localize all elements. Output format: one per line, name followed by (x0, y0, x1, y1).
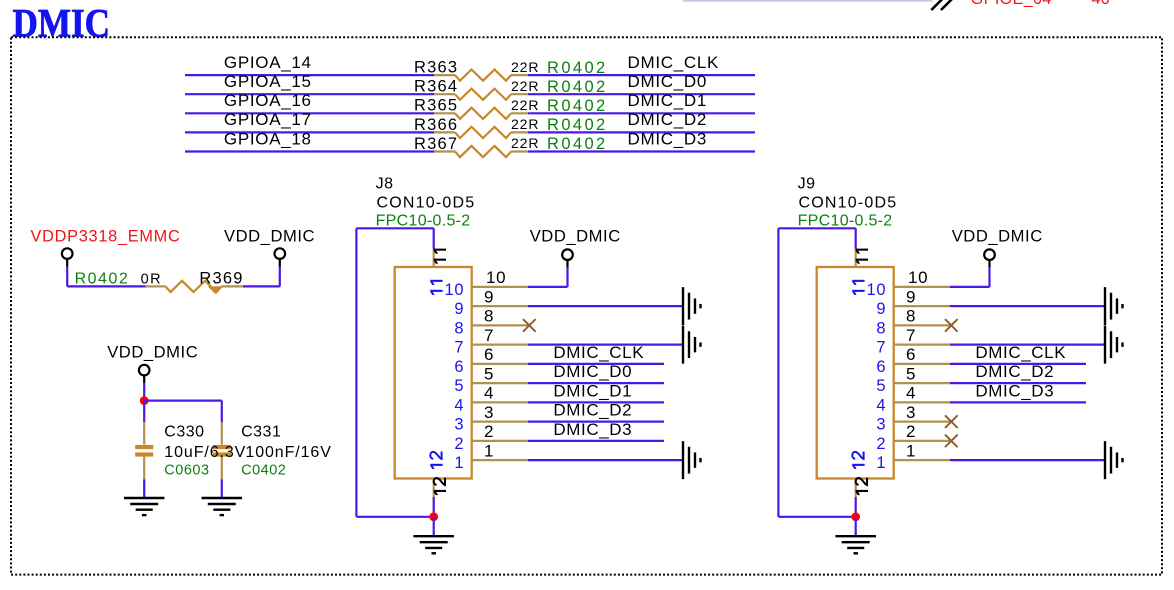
svg-text:DMIC_D0: DMIC_D0 (628, 72, 708, 91)
svg-text:DMIC_D3: DMIC_D3 (975, 381, 1054, 400)
svg-text:DMIC_D3: DMIC_D3 (628, 129, 708, 148)
svg-text:4: 4 (454, 396, 464, 414)
svg-text:3: 3 (454, 416, 464, 434)
svg-text:VDD_DMIC: VDD_DMIC (530, 227, 621, 246)
svg-text:FPC10-0.5-2: FPC10-0.5-2 (376, 212, 471, 229)
svg-text:DMIC: DMIC (13, 0, 111, 45)
svg-text:6: 6 (484, 345, 494, 364)
svg-text:1: 1 (454, 454, 464, 472)
svg-text:R364: R364 (414, 78, 458, 96)
svg-text:10uF/6.3V: 10uF/6.3V (164, 444, 246, 461)
svg-text:40: 40 (1092, 0, 1111, 8)
svg-text:1: 1 (876, 454, 886, 472)
svg-text:5: 5 (454, 377, 464, 395)
svg-text:7: 7 (876, 339, 886, 357)
svg-text:9: 9 (906, 287, 916, 306)
svg-text:DMIC_D2: DMIC_D2 (628, 110, 708, 129)
svg-text:4: 4 (484, 384, 494, 403)
svg-text:C331: C331 (241, 424, 281, 441)
svg-text:8: 8 (876, 319, 886, 337)
svg-text:R0402: R0402 (75, 270, 130, 287)
svg-text:R0402: R0402 (547, 59, 608, 77)
svg-text:R369: R369 (199, 270, 243, 288)
svg-text:DMIC_CLK: DMIC_CLK (975, 343, 1066, 362)
svg-text:1: 1 (906, 441, 916, 460)
svg-text:7: 7 (484, 326, 494, 345)
svg-text:4: 4 (906, 384, 916, 403)
svg-text:DMIC_D1: DMIC_D1 (553, 381, 632, 400)
svg-text:DMIC_D2: DMIC_D2 (553, 401, 632, 420)
svg-text:CON10-0D5: CON10-0D5 (377, 194, 476, 211)
svg-text:10: 10 (445, 281, 465, 299)
svg-text:DMIC_D3: DMIC_D3 (553, 420, 632, 439)
svg-text:R365: R365 (414, 97, 458, 115)
svg-text:VDD_DMIC: VDD_DMIC (952, 227, 1043, 246)
svg-text:GPIOA_15: GPIOA_15 (224, 72, 312, 91)
svg-text:R0402: R0402 (547, 116, 608, 134)
svg-text:3: 3 (484, 403, 494, 422)
svg-text:C0402: C0402 (241, 463, 286, 479)
svg-text:GPIOE_04: GPIOE_04 (971, 0, 1052, 8)
svg-text:DMIC_D1: DMIC_D1 (628, 91, 708, 110)
svg-text:7: 7 (906, 326, 916, 345)
svg-text:5: 5 (906, 364, 916, 383)
svg-text:22R: 22R (511, 59, 539, 75)
svg-text:7: 7 (454, 339, 464, 357)
svg-text:22R: 22R (511, 135, 539, 151)
svg-text:3: 3 (906, 403, 916, 422)
svg-text:GPIOA_18: GPIOA_18 (224, 129, 312, 148)
svg-text:9: 9 (876, 300, 886, 318)
svg-text:10: 10 (908, 268, 928, 287)
svg-text:10: 10 (486, 268, 506, 287)
svg-text:DMIC_D0: DMIC_D0 (553, 362, 632, 381)
svg-text:GPIOA_17: GPIOA_17 (224, 110, 312, 129)
svg-text:VDD_DMIC: VDD_DMIC (224, 226, 315, 245)
svg-text:R0402: R0402 (547, 135, 608, 153)
svg-text:8: 8 (454, 319, 464, 337)
svg-text:9: 9 (484, 287, 494, 306)
svg-text:22R: 22R (511, 78, 539, 94)
svg-text:9: 9 (454, 300, 464, 318)
svg-text:GPIOA_16: GPIOA_16 (224, 91, 312, 110)
svg-text:DMIC_D2: DMIC_D2 (975, 362, 1054, 381)
svg-text:FPC10-0.5-2: FPC10-0.5-2 (798, 212, 893, 229)
svg-text:DMIC_CLK: DMIC_CLK (553, 343, 644, 362)
svg-text:GPIOA_14: GPIOA_14 (224, 53, 312, 72)
svg-text:6: 6 (454, 358, 464, 376)
svg-text:5: 5 (484, 364, 494, 383)
svg-text:2: 2 (906, 422, 916, 441)
svg-text:C0603: C0603 (164, 463, 209, 479)
svg-text:3: 3 (876, 416, 886, 434)
svg-text:22R: 22R (511, 97, 539, 113)
svg-text:4: 4 (876, 396, 886, 414)
svg-text:1: 1 (484, 441, 494, 460)
svg-text:2: 2 (876, 435, 886, 453)
svg-text:0R: 0R (141, 271, 163, 287)
svg-text:J9: J9 (798, 176, 816, 193)
svg-text:8: 8 (484, 307, 494, 326)
svg-text:R367: R367 (414, 135, 458, 153)
svg-text:VDDP3318_EMMC: VDDP3318_EMMC (31, 227, 181, 245)
svg-text:R0402: R0402 (547, 97, 608, 115)
svg-text:J8: J8 (376, 176, 394, 193)
svg-text:2: 2 (484, 422, 494, 441)
svg-text:5: 5 (876, 377, 886, 395)
svg-text:6: 6 (876, 358, 886, 376)
svg-text:CON10-0D5: CON10-0D5 (799, 194, 898, 211)
svg-text:22R: 22R (511, 116, 539, 132)
svg-text:2: 2 (454, 435, 464, 453)
svg-text:8: 8 (906, 307, 916, 326)
svg-text:R0402: R0402 (547, 78, 608, 96)
svg-text:10: 10 (867, 281, 887, 299)
svg-text:VDD_DMIC: VDD_DMIC (107, 343, 198, 362)
svg-text:C330: C330 (164, 424, 204, 441)
svg-text:R366: R366 (414, 116, 458, 134)
svg-text:DMIC_CLK: DMIC_CLK (628, 53, 720, 72)
svg-text:R363: R363 (414, 59, 458, 77)
svg-text:6: 6 (906, 345, 916, 364)
svg-text:100nF/16V: 100nF/16V (245, 444, 331, 461)
